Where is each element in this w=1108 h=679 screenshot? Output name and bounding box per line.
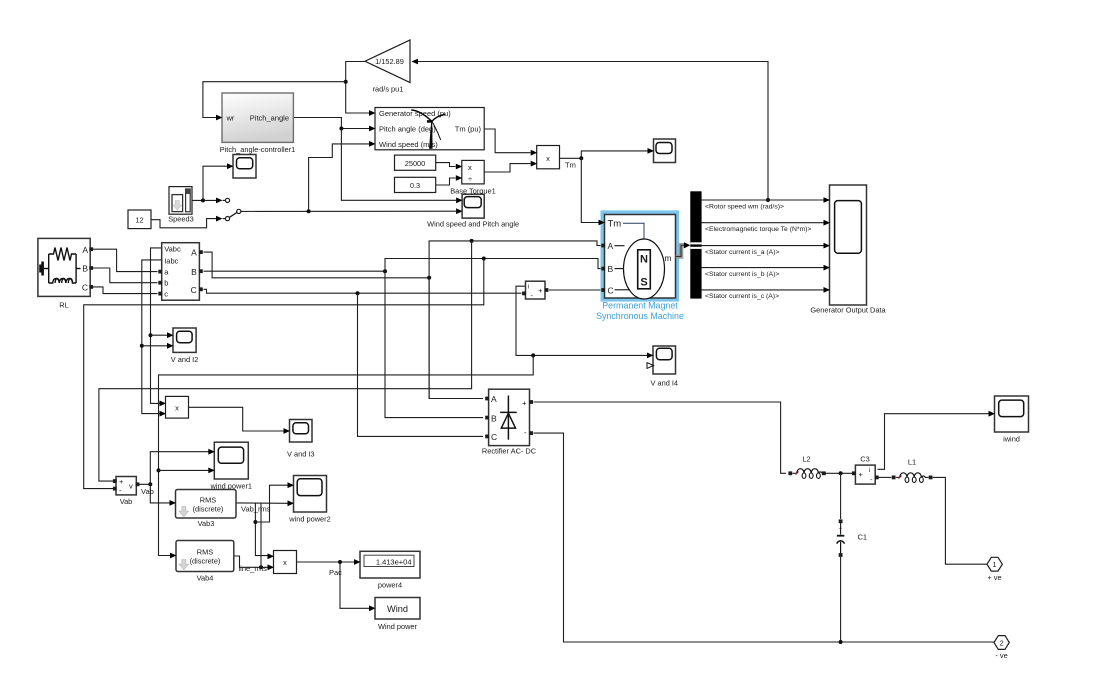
svg-text:wind power2: wind power2 <box>288 515 331 524</box>
svg-text:Tm: Tm <box>608 219 622 230</box>
svg-text:Tm: Tm <box>565 161 576 170</box>
stub V and I4 unconnected input <box>647 363 654 369</box>
wire bus output torque <box>702 222 824 224</box>
wire bus output rotor speed <box>702 199 824 201</box>
svg-text:<Stator current is_c (A)>: <Stator current is_c (A)> <box>705 293 779 300</box>
svg-text:A: A <box>491 394 497 404</box>
block Wind Turbine <box>369 108 484 150</box>
wire pitch-angle branch down to scope input 1 <box>341 129 456 201</box>
svg-text:2: 2 <box>1000 638 1004 647</box>
svg-text:c: c <box>164 290 168 299</box>
svg-text:Pac: Pac <box>329 568 342 577</box>
wire Vab4 output to product3 input 2 <box>234 556 268 567</box>
wire phase A riser to PMSM A <box>429 241 601 399</box>
wire phase A tap to Vab plus <box>99 241 472 481</box>
svg-text:x: x <box>175 404 179 413</box>
wire Speed3 output to manual switch upper input <box>192 199 216 201</box>
wire Vab output to Vab3 <box>137 484 171 503</box>
svg-text:+: + <box>119 477 124 486</box>
svg-text:Wind: Wind <box>387 604 408 614</box>
wire L2 to node <box>793 472 798 474</box>
gain rad/s pu1 <box>365 40 418 94</box>
wire RL A to measurement a <box>93 249 158 271</box>
svg-text:RL: RL <box>59 301 68 310</box>
wire junction Speed3 branch <box>201 198 205 202</box>
svg-text:L2: L2 <box>802 455 810 464</box>
wire gain output to turbine Generator speed input <box>346 62 369 114</box>
wire C3 i output up to iwind scope <box>878 414 989 470</box>
port 2 -ve <box>994 636 1009 660</box>
inductor L2 <box>788 455 825 479</box>
block Three-Phase V-I Measurement <box>158 243 203 301</box>
svg-text:Wind speed and Pitch angle: Wind speed and Pitch angle <box>427 220 519 229</box>
wire L1 node to +ve port <box>933 477 987 564</box>
wire junction DC node <box>839 471 843 475</box>
bus signal m to Bus Selector <box>676 242 691 256</box>
scope V and I3 <box>284 420 315 459</box>
wire Vabc branch to V and I2 input 1 <box>151 334 168 336</box>
svg-text:<Stator current is_a (A)>: <Stator current is_a (A)> <box>705 249 779 256</box>
block Rectifier AC-DC <box>485 389 533 445</box>
wire rectifier plus to L2 <box>534 402 787 473</box>
wire phase C from measurement <box>204 289 522 293</box>
constant 25000 <box>395 155 436 170</box>
svg-text:RMS: RMS <box>200 496 216 505</box>
wire phase B tap to Vab minus <box>84 259 484 489</box>
svg-text:1.413e+04: 1.413e+04 <box>376 557 412 566</box>
wire Iabc branch to V and I2 input 2 <box>142 345 167 347</box>
svg-text:+: + <box>859 470 864 479</box>
capacitor C1 <box>837 519 867 556</box>
wire phase C down to rectifier C <box>358 293 484 436</box>
svg-text:wr: wr <box>226 114 235 123</box>
wire junction Vab_rms <box>253 520 257 524</box>
wire Pac branch to Wind goto <box>340 562 370 608</box>
label bus signals <box>705 203 811 300</box>
wire Vab_rms branch to wind power2 input 1 <box>255 485 288 522</box>
svg-text:v: v <box>129 482 133 491</box>
wire junction pitch-angle branch <box>339 127 343 131</box>
svg-text:Iabc: Iabc <box>164 256 178 265</box>
wire C3 minus to L1 <box>878 476 892 478</box>
svg-text:1: 1 <box>993 560 997 569</box>
wire Iabc output down <box>142 260 162 414</box>
wire junction phase B to Vab <box>482 257 486 261</box>
svg-text:line_rms: line_rms <box>239 564 268 573</box>
wire bus output is_a <box>702 245 824 247</box>
wire phase A down to rectifier A <box>429 278 483 399</box>
subsystem Pitch_angle-controller1 <box>216 93 295 154</box>
icon wind turbine <box>411 110 445 149</box>
machine Permanent Magnet Synchronous Machine <box>596 210 684 321</box>
svg-text:x: x <box>546 154 550 163</box>
wire Vab_rms down to product3 input 1 <box>255 503 268 555</box>
source Speed3 <box>168 187 193 224</box>
switch Manual Switch <box>216 198 241 222</box>
block RL <box>38 238 93 309</box>
svg-text:RMS: RMS <box>197 548 213 557</box>
wire junction gain-output branch <box>344 80 348 84</box>
svg-text:0.3: 0.3 <box>410 181 420 190</box>
svg-text:25000: 25000 <box>405 159 426 168</box>
port 1 +ve <box>987 557 1002 582</box>
block RMS Vab3 <box>170 490 271 529</box>
wire wind-speed branch up to turbine Wind speed input <box>309 144 369 211</box>
svg-text:(discrete): (discrete) <box>190 557 221 566</box>
wire junction Pac <box>338 560 342 564</box>
wire constant 0.3 to divide divide-input <box>436 178 456 185</box>
wire L2 node segment <box>822 472 853 474</box>
wire phase B from measurement <box>204 270 386 272</box>
svg-text:V and I2: V and I2 <box>171 355 199 364</box>
svg-text:i: i <box>869 467 870 474</box>
goto Wind power <box>369 598 420 632</box>
wire RL C to measurement c <box>93 287 158 294</box>
block Vab voltage measurement <box>113 477 154 507</box>
wire junction Iabc to V and I2 <box>140 344 144 348</box>
wire rotor-speed feedback to gain input <box>418 62 769 201</box>
wire RL B to measurement b <box>93 268 158 283</box>
svg-text:V and I4: V and I4 <box>650 379 678 388</box>
scope V and I2 <box>167 328 198 364</box>
svg-text:S: S <box>640 277 647 289</box>
svg-text:+: + <box>522 398 527 407</box>
scope Speed <box>227 155 256 179</box>
wire constant 12 to manual switch lower input <box>151 219 216 228</box>
wire Base Torque1 output to product input 2 <box>484 164 530 172</box>
product Tm multiply <box>531 146 576 170</box>
scope wind power1 <box>208 442 252 490</box>
svg-text:<Stator current is_b (A)>: <Stator current is_b (A)> <box>705 271 779 278</box>
divide Base Torque1 <box>450 160 495 195</box>
wire junction Vab output <box>148 482 152 486</box>
svg-text:Pitch angle (deg): Pitch angle (deg) <box>379 125 436 134</box>
svg-text:C: C <box>608 285 614 295</box>
svg-text:Pitch_angle-controller1: Pitch_angle-controller1 <box>220 145 296 154</box>
wire junction phase A <box>427 276 431 280</box>
svg-text:Synchronous Machine: Synchronous Machine <box>596 311 684 321</box>
wire bus output is_c <box>702 289 824 291</box>
wire junction rotor-speed branch <box>766 198 770 202</box>
wire current sensor plus to PMSM C <box>549 289 601 291</box>
wire current sensor i output down <box>516 286 648 355</box>
wire junction negative rail C1 <box>839 640 843 644</box>
wire Tm branch down to PMSM Tm input <box>581 158 599 222</box>
product multiply Pac <box>268 551 343 578</box>
wire i signal long branch left <box>159 355 534 555</box>
wire product2 output to V and I3 <box>189 407 284 431</box>
svg-text:÷: ÷ <box>468 174 472 183</box>
svg-text:Permanent Magnet: Permanent Magnet <box>602 301 678 311</box>
svg-text:Rectifier AC- DC: Rectifier AC- DC <box>482 447 537 456</box>
svg-text:<Electromagnetic torque Te (N*: <Electromagnetic torque Te (N*m)> <box>705 226 811 233</box>
svg-text:C: C <box>82 282 88 292</box>
wire Vab branch up to wind power1 input 1 <box>150 452 208 485</box>
svg-text:N: N <box>640 254 648 266</box>
block C3 current measurement <box>852 455 879 485</box>
svg-text:b: b <box>164 279 168 288</box>
wire rectifier minus to -ve port <box>534 433 995 642</box>
wire C1 bottom down to negative rail <box>840 557 842 642</box>
constant 12 <box>128 210 151 229</box>
constant 0.3 <box>395 177 436 192</box>
wire product Tm output to scope <box>560 151 648 158</box>
svg-text:iwind: iwind <box>1003 435 1020 444</box>
wire junction i signal <box>531 353 535 357</box>
wire phase A from measurement <box>204 252 430 278</box>
wire node down to C1 <box>840 473 842 519</box>
svg-text:C3: C3 <box>860 455 869 464</box>
wire Pitch_angle output to turbine Pitch angle input <box>293 118 369 129</box>
svg-text:x: x <box>468 163 472 172</box>
product multiply V I <box>160 396 189 418</box>
svg-text:(discrete): (discrete) <box>193 505 224 514</box>
wire phase B down to rectifier B <box>385 271 483 417</box>
svg-text:m: m <box>664 253 671 263</box>
wire gain output branch to wr input <box>203 82 346 118</box>
svg-text:Vab: Vab <box>141 487 154 496</box>
wire junction phase C <box>356 291 360 295</box>
wire L1 to port 1 <box>896 476 900 478</box>
svg-text:Tm (pu): Tm (pu) <box>455 125 482 134</box>
wire i branch to wind power1 input 2 <box>159 469 209 471</box>
wire junction phase B <box>383 269 387 273</box>
label Rectifier AC- DC <box>482 447 537 456</box>
wire phase B riser to PMSM B <box>385 259 601 272</box>
inductor L1 <box>892 458 933 483</box>
wire bus output is_b <box>702 267 824 269</box>
svg-text:A: A <box>82 245 88 255</box>
svg-text:Vab3: Vab3 <box>198 519 215 528</box>
svg-text:x: x <box>283 558 287 567</box>
svg-text:Vab_rms: Vab_rms <box>241 505 271 514</box>
svg-text:B: B <box>82 264 88 274</box>
scope wind power2 <box>288 476 331 524</box>
wire constant 25000 to divide x input <box>436 163 456 167</box>
wire L1 tail <box>925 476 929 478</box>
svg-text:1/152.89: 1/152.89 <box>375 57 404 66</box>
wire junction i to wind power1 <box>157 468 161 472</box>
wire turbine Tm(pu) to product input 1 <box>484 129 530 153</box>
svg-text:A: A <box>608 241 614 251</box>
svg-text:V and I3: V and I3 <box>287 450 315 459</box>
svg-text:Vab: Vab <box>120 497 133 506</box>
wire junction line_rms <box>259 565 263 569</box>
wire line_rms branch up to wind power2 <box>260 503 262 567</box>
wire junction wind-speed branch <box>307 209 311 213</box>
svg-text:rad/s pu1: rad/s pu1 <box>373 85 404 94</box>
svg-text:B: B <box>608 264 614 274</box>
scope Generator Output Data <box>810 185 886 315</box>
icon diode <box>500 396 517 440</box>
wire manual switch output wind speed line <box>241 210 456 212</box>
svg-text:i: i <box>528 284 529 290</box>
display power4 <box>354 551 420 589</box>
wire Speed3 branch up to scope <box>203 166 227 200</box>
svg-text:Speed3: Speed3 <box>168 215 193 224</box>
scope Tm <box>648 139 676 163</box>
wire Vabc output down <box>151 248 162 404</box>
wire product3 output Pac to display <box>297 561 355 563</box>
scope iwind <box>989 396 1029 444</box>
svg-text:Vabc: Vabc <box>164 245 181 254</box>
wire junction Vabc to V and I2 <box>149 333 153 337</box>
svg-text:C1: C1 <box>858 532 868 541</box>
block current measurement i1 <box>522 281 548 300</box>
scope Wind speed and Pitch angle <box>427 194 519 228</box>
wire Vab3 output to wind power2 input 2 <box>236 502 288 504</box>
svg-text:+: + <box>538 286 543 295</box>
bus selector <box>690 191 701 298</box>
wire junction phase A to Vab <box>470 239 474 243</box>
wire junction Tm branch <box>579 156 583 160</box>
svg-text:<Rotor speed wm (rad/s)>: <Rotor speed wm (rad/s)> <box>705 203 784 210</box>
svg-text:C: C <box>491 432 497 442</box>
svg-text:Pitch_angle: Pitch_angle <box>250 114 289 123</box>
svg-text:B: B <box>191 267 197 277</box>
svg-text:B: B <box>491 413 497 423</box>
svg-text:L1: L1 <box>908 458 916 467</box>
svg-text:C: C <box>191 285 197 295</box>
svg-text:Wind power: Wind power <box>378 622 418 631</box>
svg-text:A: A <box>191 248 197 258</box>
svg-text:power4: power4 <box>378 581 402 590</box>
svg-text:Vab4: Vab4 <box>197 574 214 583</box>
scope V and I4 <box>647 346 678 388</box>
svg-text:12: 12 <box>135 216 143 225</box>
block RMS Vab4 <box>170 541 267 583</box>
svg-text:+ ve: + ve <box>987 573 1001 582</box>
svg-text:Generator Output Data: Generator Output Data <box>810 306 886 315</box>
svg-text:- ve: - ve <box>995 651 1007 660</box>
